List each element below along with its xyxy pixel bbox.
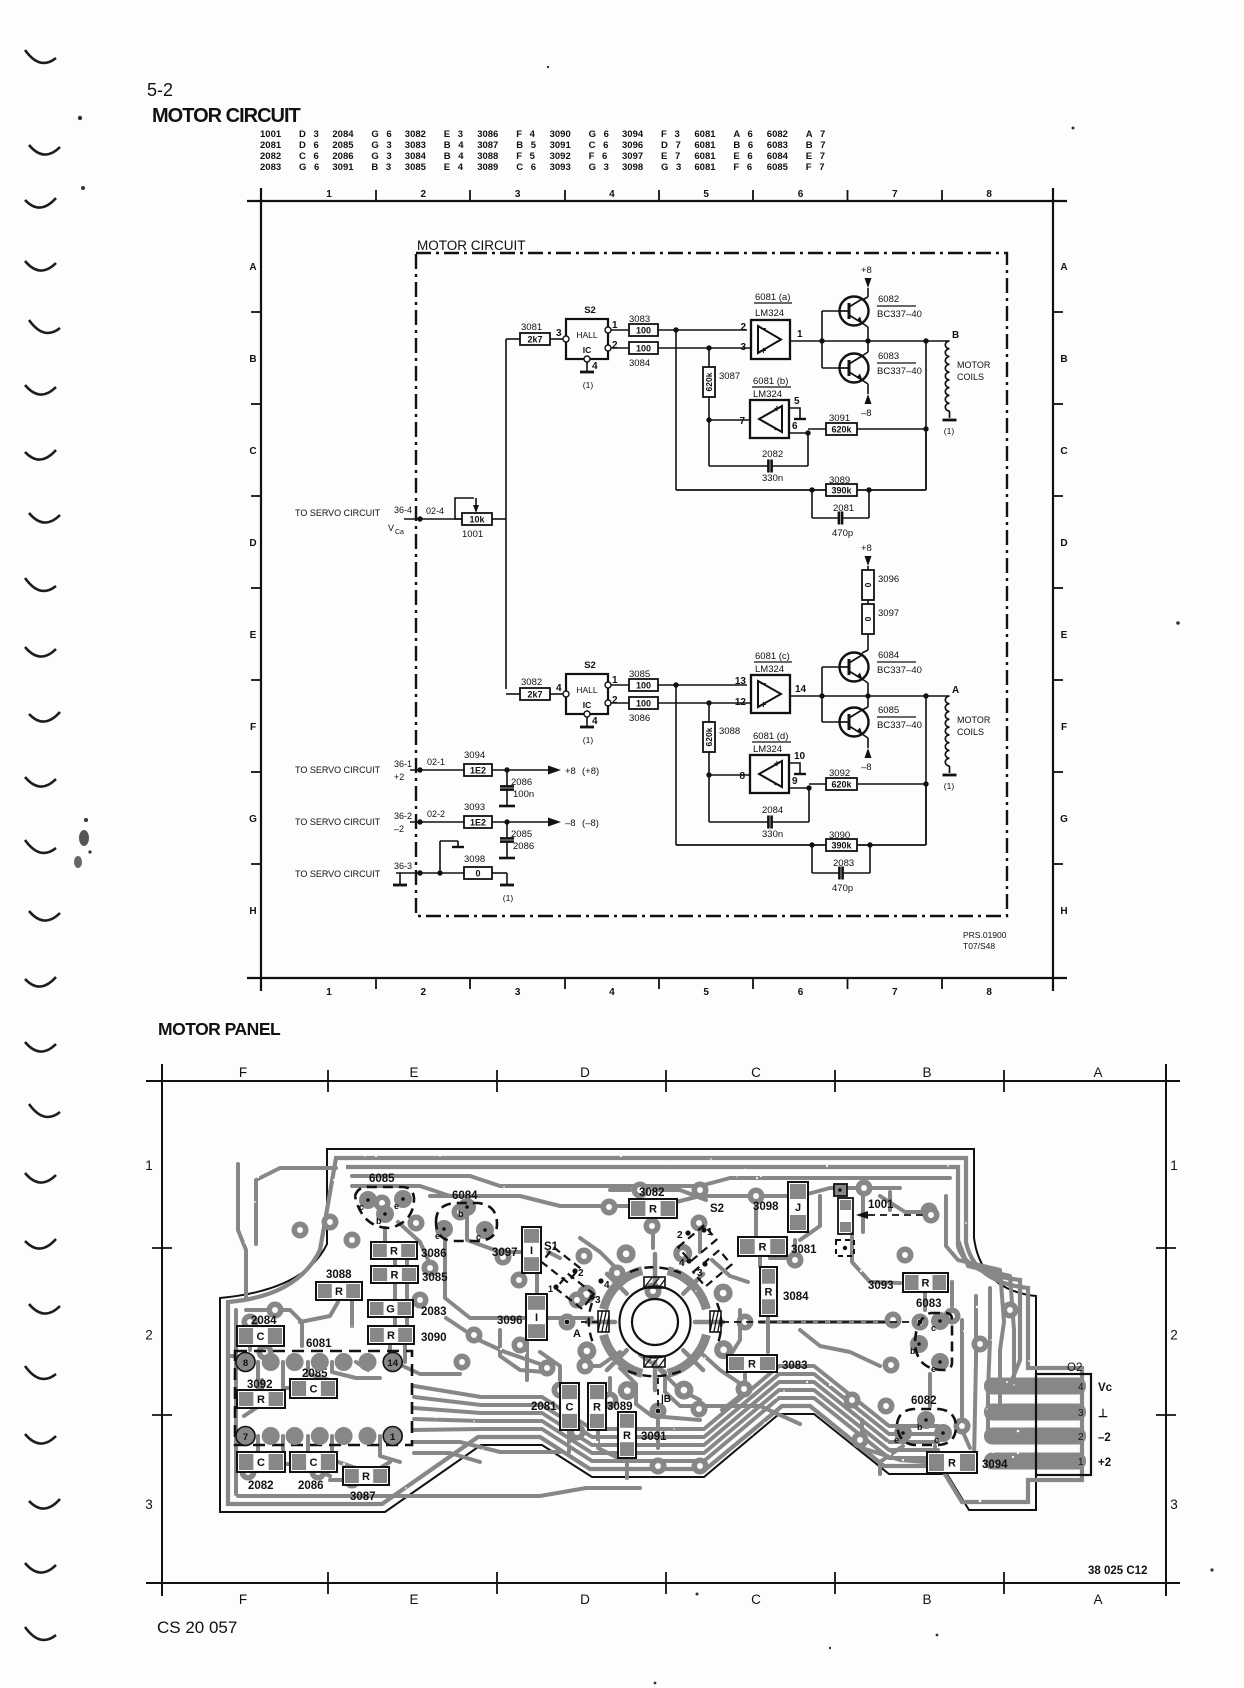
svg-text:(1): (1) — [583, 735, 594, 745]
svg-text:S2: S2 — [584, 660, 596, 671]
svg-text:G: G — [1060, 814, 1068, 825]
svg-text:100n: 100n — [513, 789, 534, 800]
svg-text:R: R — [593, 1402, 601, 1414]
svg-text:330n: 330n — [762, 829, 783, 840]
svg-text:F: F — [250, 722, 256, 733]
wire op-amp a output — [790, 338, 825, 343]
label MOTOR COILS upper — [957, 360, 991, 382]
svg-text:36-1: 36-1 — [394, 759, 412, 769]
svg-text:R: R — [748, 1359, 756, 1371]
panel transistor 6083 — [910, 1298, 952, 1374]
svg-text:R: R — [257, 1394, 265, 1406]
svg-text:e: e — [894, 1435, 899, 1445]
panel node B dashed link — [656, 1378, 671, 1413]
svg-text:3082: 3082 — [405, 129, 426, 140]
svg-text:–8: –8 — [565, 818, 576, 829]
svg-text:LM324: LM324 — [755, 664, 784, 675]
svg-text:2083: 2083 — [833, 858, 854, 869]
resistor 3091 620k — [808, 413, 929, 435]
svg-text:3086: 3086 — [477, 129, 498, 140]
panel 1001 wiper dashed arrow — [856, 1207, 940, 1224]
svg-text:2085: 2085 — [332, 140, 354, 151]
svg-text:3081: 3081 — [791, 1244, 817, 1256]
svg-text:D 6: D 6 — [299, 140, 321, 151]
svg-text:G 3: G 3 — [371, 140, 394, 151]
panel capacitor 2084 — [237, 1315, 284, 1346]
hall IC S2 lower — [563, 660, 611, 717]
transistor 6085 BC337-40 — [840, 708, 869, 737]
capacitor 2083 470p — [812, 845, 870, 894]
svg-text:(1): (1) — [944, 426, 955, 436]
panel transistor 6085 — [355, 1173, 414, 1228]
svg-text:1: 1 — [145, 1158, 153, 1173]
svg-text:2: 2 — [612, 695, 618, 706]
svg-text:−: − — [761, 679, 767, 690]
svg-text:G 3: G 3 — [371, 151, 394, 162]
capacitor 2084 330n feedback — [709, 775, 809, 840]
panel transistor 6082 — [894, 1395, 956, 1445]
svg-text:2: 2 — [578, 1268, 584, 1279]
svg-text:2: 2 — [612, 340, 618, 351]
svg-text:3: 3 — [145, 1497, 153, 1512]
svg-text:3090: 3090 — [550, 129, 571, 140]
svg-text:3089: 3089 — [477, 162, 498, 173]
svg-text:+8: +8 — [861, 265, 872, 276]
svg-text:LM324: LM324 — [753, 389, 782, 400]
resistor 3098 0 — [464, 854, 507, 879]
transistor 6082 BC337-40 — [840, 297, 869, 326]
svg-text:E: E — [409, 1065, 418, 1080]
MOTOR CIRCUIT dashed boundary box — [416, 253, 1007, 916]
svg-text:1001: 1001 — [868, 1199, 894, 1211]
panel connector O2 — [1036, 1362, 1113, 1475]
svg-text:b: b — [917, 1422, 923, 1432]
panel row numbers — [145, 1158, 1178, 1512]
op-amp 6081(c) LM324 — [751, 651, 792, 713]
pcb trace left bundle — [228, 1164, 640, 1496]
svg-text:C 6: C 6 — [589, 140, 611, 151]
wire base bus lower pair — [822, 667, 840, 722]
svg-text:BC337–40: BC337–40 — [877, 366, 922, 377]
panel motor spindle — [598, 1277, 721, 1367]
svg-text:(1): (1) — [503, 893, 514, 903]
svg-text:3: 3 — [697, 1268, 703, 1279]
svg-text:CS 20 057: CS 20 057 — [157, 1618, 237, 1637]
label 6084 — [877, 650, 922, 676]
note PRS — [963, 930, 1007, 951]
svg-text:BC337–40: BC337–40 — [877, 720, 922, 731]
svg-text:1: 1 — [390, 1432, 396, 1443]
panel jumper 3096 — [497, 1294, 547, 1340]
svg-text:2085: 2085 — [511, 829, 532, 840]
svg-text:620k: 620k — [704, 727, 714, 746]
svg-text:6084: 6084 — [878, 650, 899, 661]
svg-text:3094: 3094 — [622, 129, 644, 140]
svg-text:⊥: ⊥ — [1098, 1408, 1108, 1420]
svg-text:(1): (1) — [583, 380, 594, 390]
pin 5 stub op-amp b — [789, 396, 806, 419]
svg-text:1E2: 1E2 — [470, 765, 486, 775]
panel resistor 3087 — [343, 1467, 389, 1503]
svg-text:3: 3 — [595, 1295, 601, 1306]
svg-text:+2: +2 — [1098, 1457, 1111, 1469]
svg-text:6082: 6082 — [878, 294, 899, 305]
row1 wire and terminal 36-1 — [394, 757, 464, 782]
svg-text:R: R — [765, 1287, 773, 1299]
svg-text:5-2: 5-2 — [147, 80, 173, 100]
panel frame — [146, 1064, 1180, 1596]
svg-text:+8: +8 — [861, 543, 872, 554]
junction upper pin3 node — [706, 345, 711, 350]
svg-text:3086: 3086 — [629, 713, 650, 724]
svg-text:6082: 6082 — [767, 129, 788, 140]
power -8 upper — [861, 380, 872, 419]
svg-text:A: A — [573, 1328, 581, 1340]
wire op-amp d input — [706, 772, 750, 777]
svg-text:3081: 3081 — [521, 322, 542, 333]
svg-text:36-4: 36-4 — [394, 505, 412, 515]
svg-text:5: 5 — [794, 396, 800, 407]
svg-text:3086: 3086 — [421, 1248, 447, 1260]
svg-text:–2: –2 — [1098, 1432, 1111, 1444]
resistor 3087 620k vertical — [703, 348, 740, 420]
svg-text:3: 3 — [740, 342, 746, 353]
svg-text:c: c — [934, 1435, 939, 1445]
svg-text:R: R — [335, 1286, 343, 1298]
panel jumper 3097 — [492, 1227, 541, 1273]
svg-text:6081 (b): 6081 (b) — [753, 376, 788, 387]
svg-text:36-2: 36-2 — [394, 811, 412, 821]
svg-text:3: 3 — [515, 987, 521, 998]
panel resistor 3093 — [868, 1273, 948, 1292]
svg-text:A: A — [1093, 1592, 1102, 1607]
panel resistor 3082 — [629, 1187, 677, 1218]
svg-text:7: 7 — [892, 987, 898, 998]
panel motor dashed arcs — [589, 1267, 722, 1376]
svg-text:S2: S2 — [710, 1203, 724, 1215]
pcb trace IC 6081 area — [250, 1330, 405, 1476]
svg-text:2086: 2086 — [332, 151, 353, 162]
pcb trace extra tangle — [446, 1190, 890, 1424]
svg-text:E 3: E 3 — [444, 129, 466, 140]
svg-text:A: A — [249, 262, 256, 273]
svg-text:6: 6 — [798, 189, 804, 200]
svg-text:6085: 6085 — [767, 162, 789, 173]
svg-text:B 7: B 7 — [806, 140, 828, 151]
svg-text:+: + — [761, 700, 767, 711]
resistor 3081 2k7 — [506, 322, 563, 345]
svg-text:I: I — [535, 1312, 538, 1324]
svg-text:6: 6 — [792, 421, 798, 432]
wire op-amp c output — [790, 693, 825, 698]
ground lower hall — [580, 717, 594, 745]
svg-text:2: 2 — [421, 189, 427, 200]
svg-text:3098: 3098 — [622, 162, 643, 173]
svg-text:13: 13 — [735, 676, 747, 687]
svg-text:100: 100 — [636, 680, 651, 690]
svg-text:6083: 6083 — [916, 1298, 942, 1310]
capacitor 2082 330n feedback — [709, 420, 808, 484]
svg-text:3090: 3090 — [421, 1332, 447, 1344]
resistor 3097 0 vertical — [862, 600, 899, 653]
capacitor 2081 470p — [812, 490, 869, 539]
svg-text:100: 100 — [636, 343, 651, 353]
svg-text:S2: S2 — [584, 305, 596, 316]
svg-text:TO SERVO CIRCUIT: TO SERVO CIRCUIT — [295, 869, 381, 879]
panel jumper 3098 — [753, 1182, 808, 1232]
svg-text:R: R — [390, 1246, 398, 1258]
svg-text:2084: 2084 — [762, 805, 783, 816]
svg-text:F: F — [1061, 722, 1067, 733]
svg-text:B: B — [249, 354, 256, 365]
svg-text:–8: –8 — [861, 762, 872, 773]
svg-text:2k7: 2k7 — [527, 334, 542, 344]
svg-text:470p: 470p — [832, 883, 853, 894]
svg-text:1: 1 — [326, 987, 332, 998]
svg-text:R: R — [759, 1242, 767, 1254]
emitter node wire upper — [862, 323, 871, 356]
resistor 3084 100 — [611, 342, 751, 369]
svg-text:02-4: 02-4 — [426, 506, 444, 516]
svg-text:(–8): (–8) — [582, 818, 599, 829]
motor coil A — [943, 696, 957, 791]
svg-text:C 6: C 6 — [516, 162, 538, 173]
pin 10 stub op-amp d — [789, 751, 806, 774]
panel resistor 3083 — [727, 1355, 808, 1372]
pcb trace border ring — [228, 1158, 1082, 1504]
svg-text:C: C — [751, 1065, 761, 1080]
svg-text:2083: 2083 — [260, 162, 281, 173]
svg-text:1: 1 — [1078, 1457, 1084, 1468]
svg-text:620k: 620k — [704, 372, 714, 391]
op-amp 6081(d) LM324 — [750, 731, 791, 793]
panel right pad dashed link — [722, 1320, 922, 1325]
svg-text:G 6: G 6 — [589, 129, 612, 140]
panel column letters — [239, 1065, 1103, 1607]
pcb connector fingers — [984, 1378, 1086, 1470]
svg-text:2: 2 — [677, 1230, 683, 1241]
svg-text:E 6: E 6 — [733, 151, 755, 162]
svg-text:0: 0 — [863, 616, 873, 621]
svg-text:R: R — [649, 1204, 657, 1216]
resistor 3093 1E2 — [464, 802, 548, 828]
svg-text:3091: 3091 — [332, 162, 354, 173]
svg-text:B 4: B 4 — [444, 151, 466, 162]
row2 wire and terminal 36-2 — [394, 809, 464, 834]
svg-text:02-1: 02-1 — [427, 757, 445, 767]
resistor 3096 0 vertical — [861, 543, 899, 600]
pcb trace top bundle — [352, 1176, 950, 1258]
svg-text:E 7: E 7 — [661, 151, 683, 162]
svg-text:F 3: F 3 — [661, 129, 682, 140]
svg-text:12: 12 — [735, 697, 747, 708]
svg-text:3: 3 — [515, 189, 521, 200]
panel resistor 3084 — [760, 1267, 809, 1316]
svg-text:100: 100 — [636, 698, 651, 708]
svg-text:8: 8 — [986, 987, 992, 998]
svg-text:A 7: A 7 — [806, 129, 828, 140]
svg-text:1: 1 — [326, 189, 332, 200]
svg-text:1: 1 — [548, 1284, 553, 1294]
svg-text:3: 3 — [556, 328, 562, 339]
svg-text:B: B — [922, 1065, 931, 1080]
svg-text:3085: 3085 — [422, 1272, 448, 1284]
svg-text:3094: 3094 — [982, 1459, 1008, 1471]
svg-text:10k: 10k — [469, 514, 485, 524]
svg-text:B 5: B 5 — [516, 140, 538, 151]
svg-text:D: D — [249, 538, 256, 549]
svg-text:TO SERVO CIRCUIT: TO SERVO CIRCUIT — [295, 817, 381, 827]
svg-text:620k: 620k — [831, 424, 852, 434]
panel resistor 3090 — [368, 1326, 447, 1344]
svg-text:+: + — [774, 404, 780, 415]
panel resistor 3094 — [927, 1452, 1008, 1473]
svg-text:MOTOR: MOTOR — [957, 715, 991, 725]
svg-text:+8: +8 — [565, 766, 576, 777]
svg-text:9: 9 — [792, 776, 798, 787]
panel component 2083 — [368, 1300, 447, 1318]
svg-text:LM324: LM324 — [755, 308, 784, 319]
svg-text:F 7: F 7 — [806, 162, 827, 173]
pcb speckle dots — [229, 1154, 1030, 1505]
svg-text:B: B — [952, 330, 959, 341]
frame column labels top — [326, 189, 992, 200]
svg-text:G: G — [386, 1304, 395, 1316]
svg-text:2082: 2082 — [248, 1480, 274, 1492]
panel pot 1001 — [834, 1184, 894, 1234]
svg-text:b: b — [458, 1209, 464, 1219]
power +8 upper — [861, 265, 872, 300]
transistor 6084 BC337-40 — [840, 653, 869, 682]
svg-text:3084: 3084 — [405, 151, 427, 162]
panel capacitor 2081 — [531, 1383, 579, 1430]
schematic border frame — [247, 188, 1067, 991]
panel resistor 3088 — [316, 1269, 362, 1300]
panel switch S1 — [542, 1241, 610, 1309]
svg-text:0: 0 — [863, 582, 873, 587]
wire output node to coil B — [822, 338, 949, 343]
svg-text:3083: 3083 — [782, 1360, 808, 1372]
svg-text:1E2: 1E2 — [470, 817, 486, 827]
node VCa input wire from servo — [404, 516, 462, 521]
svg-text:2: 2 — [1170, 1328, 1178, 1343]
svg-text:E: E — [1061, 630, 1068, 641]
svg-text:5: 5 — [703, 189, 709, 200]
panel 1001 lower dashed pad — [836, 1240, 854, 1256]
svg-text:C: C — [566, 1402, 574, 1414]
svg-text:2081: 2081 — [260, 140, 282, 151]
svg-text:H: H — [249, 906, 256, 917]
svg-text:TO SERVO CIRCUIT: TO SERVO CIRCUIT — [295, 765, 381, 775]
resistor 3090 390k — [826, 830, 857, 851]
pcb motor ring traces — [577, 1244, 733, 1400]
svg-text:(1): (1) — [944, 781, 955, 791]
svg-text:3087: 3087 — [477, 140, 498, 151]
svg-text:A: A — [1060, 262, 1067, 273]
svg-text:O2: O2 — [1067, 1362, 1082, 1374]
panel node A dashed link — [565, 1320, 598, 1340]
wire op-amp b input — [706, 417, 750, 422]
hall IC S2 upper — [563, 305, 611, 362]
svg-text:4: 4 — [592, 361, 598, 372]
svg-text:6084: 6084 — [767, 151, 789, 162]
svg-text:C: C — [257, 1457, 265, 1469]
svg-text:B 4: B 4 — [444, 140, 466, 151]
svg-text:3082: 3082 — [521, 677, 542, 688]
panel transistor 6084 — [435, 1190, 497, 1242]
panel capacitor 2086 — [290, 1452, 337, 1492]
frame row labels left — [249, 262, 257, 917]
svg-text:470p: 470p — [832, 528, 853, 539]
svg-text:3096: 3096 — [878, 574, 899, 585]
svg-text:5: 5 — [703, 987, 709, 998]
svg-text:C: C — [1060, 446, 1067, 457]
svg-text:–8: –8 — [861, 408, 872, 419]
svg-text:Ca: Ca — [395, 529, 404, 536]
svg-text:2086: 2086 — [513, 841, 534, 852]
pcb scattered pads — [240, 1180, 1019, 1489]
svg-text:G: G — [249, 814, 257, 825]
panel resistor 3085 — [371, 1266, 448, 1284]
svg-text:2086: 2086 — [298, 1480, 324, 1492]
panel IC 6081 pads — [236, 1353, 402, 1446]
wire node A down bus — [925, 696, 927, 845]
wire node to lower rail — [675, 685, 677, 845]
svg-text:2081: 2081 — [833, 503, 854, 514]
motor coil B — [943, 341, 957, 436]
svg-text:C: C — [257, 1331, 265, 1343]
svg-text:COILS: COILS — [957, 372, 984, 382]
svg-text:D 3: D 3 — [299, 129, 321, 140]
svg-text:3088: 3088 — [477, 151, 498, 162]
decor — [25, 50, 60, 1640]
ground stub row3 mid — [440, 841, 464, 873]
wire node B down bus — [925, 341, 927, 490]
svg-text:7: 7 — [892, 189, 898, 200]
svg-text:G 3: G 3 — [589, 162, 612, 173]
wire base bus upper pair — [822, 311, 840, 368]
pcb trace bottom bundle — [414, 1366, 938, 1462]
svg-text:3097: 3097 — [622, 151, 643, 162]
resistor 3083 100 — [611, 314, 747, 336]
svg-text:F 5: F 5 — [516, 151, 537, 162]
panel resistor 3089 — [588, 1383, 633, 1430]
svg-text:10: 10 — [794, 751, 806, 762]
junction node lower op-amp input — [673, 682, 678, 687]
svg-text:LM324: LM324 — [753, 744, 782, 755]
svg-text:3082: 3082 — [639, 1187, 665, 1199]
svg-text:36-3: 36-3 — [394, 861, 412, 871]
svg-text:1001: 1001 — [260, 129, 282, 140]
svg-text:2086: 2086 — [511, 777, 532, 788]
svg-text:G 6: G 6 — [299, 162, 322, 173]
svg-text:C: C — [249, 446, 256, 457]
svg-text:4: 4 — [609, 189, 615, 200]
transistor 6083 BC337-40 — [840, 354, 869, 383]
svg-text:390k: 390k — [831, 485, 852, 495]
wire node to coil A — [822, 693, 949, 698]
wire pot to hall bus — [492, 339, 506, 689]
pcb trace center connections — [300, 1214, 935, 1478]
svg-text:3096: 3096 — [622, 140, 643, 151]
svg-text:E: E — [250, 630, 257, 641]
svg-text:Vc: Vc — [1098, 1382, 1113, 1394]
svg-text:2: 2 — [1078, 1432, 1084, 1443]
svg-text:6081: 6081 — [306, 1338, 332, 1350]
svg-text:(+8): (+8) — [582, 766, 599, 777]
svg-text:PRS.01900: PRS.01900 — [963, 930, 1007, 940]
svg-text:2082: 2082 — [260, 151, 281, 162]
